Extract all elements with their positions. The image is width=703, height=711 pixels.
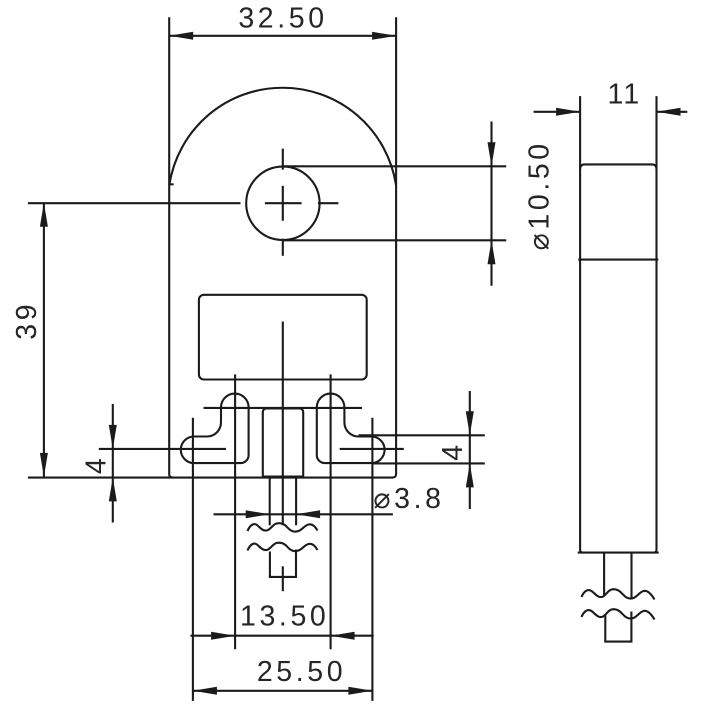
svg-text:11: 11	[608, 79, 642, 111]
central block	[263, 409, 303, 478]
svg-text:39: 39	[11, 301, 43, 340]
dim 39 top arrow	[40, 203, 48, 227]
part left edge / 32.50 left extension	[169, 17, 173, 477]
side break wave 1	[582, 589, 655, 599]
side view bottom edge	[578, 552, 659, 554]
dim D10.50 extension bottom	[284, 239, 507, 241]
dim 25.50 line	[193, 690, 373, 692]
dim 4 right bottom arrow	[466, 463, 474, 487]
dim 39 line	[43, 203, 45, 477]
dim 25.50 left arrow	[193, 687, 217, 695]
svg-text:25.50: 25.50	[257, 656, 346, 688]
dim 4 right line	[469, 391, 471, 509]
side view right edge / 11 right extension	[654, 96, 657, 552]
part outline: top arc	[169, 88, 396, 185]
svg-text:4: 4	[437, 441, 469, 460]
side stub left edge	[604, 614, 606, 642]
circle centerline cross horizontal	[265, 202, 302, 204]
stud centerline upper	[282, 322, 284, 526]
hole circle	[246, 167, 319, 240]
svg-text:4: 4	[81, 455, 113, 474]
stud left edge (front)	[269, 478, 271, 526]
dim 4 right extension bottom	[373, 462, 485, 464]
stud centerline lower	[282, 566, 284, 591]
dim 13.50 left arrow	[211, 632, 235, 640]
dim 32.50 left arrow	[169, 32, 193, 40]
svg-text:32.50: 32.50	[238, 3, 327, 35]
dim D3.8 line	[214, 513, 393, 515]
dim D3.8 left arrow	[246, 510, 270, 518]
side view band top edge	[580, 164, 656, 169]
arc end tick	[169, 183, 173, 185]
right boot slot	[317, 394, 385, 464]
break wave 2 (front)	[248, 543, 318, 551]
side stud left edge	[603, 553, 605, 597]
dim 13.50 line	[190, 635, 373, 637]
break wave 1 (front)	[248, 523, 318, 531]
side stub right edge	[630, 612, 632, 642]
stub right edge (front)	[295, 550, 297, 577]
dim 25.50 right arrow	[348, 687, 372, 695]
dim 13.50 right extension	[330, 374, 332, 649]
dim 11 right arrow	[657, 108, 681, 116]
side view left edge / 11 left extension	[580, 96, 583, 552]
dim 11 left arrow	[556, 108, 580, 116]
dim 13.50 left extension	[234, 374, 236, 649]
circle horizontal centerline / 39 top extension	[28, 202, 241, 204]
window rounded rectangle	[199, 295, 367, 380]
dim 11 right line	[657, 111, 688, 113]
dim 39 bottom arrow	[40, 453, 48, 477]
side stub bottom edge	[604, 641, 632, 643]
left boot slot	[181, 394, 249, 464]
side view band bottom edge	[578, 259, 658, 261]
dim D3.8 right arrow	[296, 510, 320, 518]
dim 11 left line	[534, 111, 581, 113]
part right edge / 32.50 right extension	[392, 17, 396, 477]
dim 4 left line	[112, 404, 114, 523]
dim 25.50 right extension	[371, 418, 373, 701]
ledge edge line	[204, 407, 363, 409]
circle vertical centerline bottom dash	[282, 239, 284, 256]
side stud right edge	[630, 553, 632, 599]
dim 32.50 right arrow	[372, 32, 396, 40]
dim 4 right top arrow	[466, 411, 474, 435]
dim 4 right extension top	[359, 434, 485, 436]
dim 25.50 left extension	[192, 418, 194, 701]
circle vertical centerline top dash	[282, 149, 284, 170]
svg-text:⌀3.8: ⌀3.8	[373, 483, 444, 515]
svg-text:13.50: 13.50	[240, 600, 329, 632]
dim 32.50 line	[169, 35, 396, 37]
stud right edge (front)	[295, 478, 297, 526]
stub bottom edge (front)	[269, 576, 297, 578]
circle centerline right dash	[318, 202, 339, 204]
tab mid edge right	[340, 448, 404, 450]
dim D10.50 line	[490, 122, 492, 286]
dim D10.50 top arrow	[488, 142, 496, 166]
part bottom edge with left extensions for 39 and 4 dims	[28, 477, 393, 479]
stub left edge (front)	[269, 552, 271, 577]
dim 13.50 right arrow	[331, 632, 355, 640]
dim D10.50 extension top	[283, 165, 506, 167]
svg-text:⌀10.50: ⌀10.50	[524, 140, 556, 250]
dim 4 left bottom arrow	[109, 477, 117, 501]
side break wave 2	[582, 609, 655, 619]
dim 4 left top arrow	[109, 425, 117, 449]
dim 4 left extension	[99, 448, 226, 450]
circle centerline cross vertical	[282, 186, 284, 221]
central block bottom edge	[263, 476, 303, 478]
dim D10.50 bottom arrow	[488, 240, 496, 264]
